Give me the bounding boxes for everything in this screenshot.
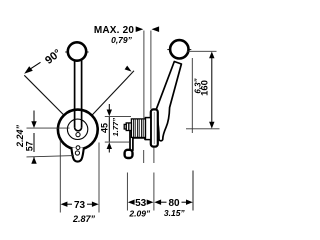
- 90 deg arrowhead right: [125, 66, 132, 72]
- svg-text:160: 160: [199, 80, 210, 96]
- cable stud: [124, 123, 131, 131]
- 90 deg arrowhead left: [24, 62, 40, 74]
- dim 45 arrow bottom: [107, 142, 112, 149]
- clamp plate: [145, 118, 150, 140]
- svg-text:2.87”: 2.87”: [72, 214, 96, 224]
- dim 45 extension bottom: [105, 141, 130, 143]
- ext line arm foot: [126, 173, 128, 211]
- dim 160 line: [211, 58, 213, 123]
- tab hole upper: [76, 146, 80, 150]
- ext line ball/lever right (lower segment): [192, 171, 194, 211]
- dim 73 extension right: [98, 143, 100, 213]
- output arm: [130, 131, 145, 151]
- base inner circle: [67, 119, 87, 139]
- dim 73 extension left: [59, 141, 61, 213]
- dim 45 arrow top: [107, 110, 112, 117]
- dim 57 arrow bottom: [31, 157, 36, 164]
- lever shaft (front view): [75, 60, 82, 131]
- dim 160 extension bottom: [186, 128, 220, 130]
- base small hole: [76, 133, 80, 137]
- lever shaft (side view, tilted): [156, 62, 182, 141]
- svg-text:57: 57: [24, 141, 34, 151]
- dim 57 arrow top: [31, 121, 36, 128]
- ext line ball/lever right (upper segment): [191, 58, 193, 133]
- mounting flange (side): [151, 109, 158, 146]
- dim 160 arrow bottom: [209, 122, 214, 129]
- svg-text:2.09”: 2.09”: [128, 208, 151, 218]
- dim 53 arrows: [128, 200, 135, 205]
- swing line left (45 deg lever position): [24, 75, 64, 115]
- ext line stub clamp face: [143, 150, 145, 163]
- tab hole lower: [75, 151, 79, 155]
- ext line panel face (lower segment): [153, 173, 155, 211]
- dim 160 extension top: [187, 50, 217, 52]
- lever ball (side view): [170, 40, 188, 58]
- bottom tab: [71, 148, 83, 162]
- svg-text:53: 53: [135, 198, 147, 209]
- dim MAX.20 ext line left: [143, 31, 145, 119]
- dim MAX.20 ext line right: [150, 31, 152, 109]
- clamp nut stack: [131, 119, 145, 137]
- base outer circle: [58, 110, 98, 150]
- svg-text:1.77”: 1.77”: [111, 118, 120, 137]
- svg-text:MAX. 20: MAX. 20: [94, 25, 135, 36]
- flange inner line: [153, 112, 155, 144]
- ball ticks (side view): [167, 49, 191, 51]
- ext line panel face (upper stub): [153, 148, 155, 164]
- dim 45 extension top: [105, 115, 131, 117]
- svg-text:45: 45: [100, 123, 110, 133]
- dim 57 line: [33, 111, 35, 164]
- dim 160 arrow top: [209, 52, 214, 59]
- dim 73 line and arrows: [61, 202, 99, 207]
- lever ball (front view): [68, 42, 86, 60]
- dim 57 extension bottom: [27, 156, 75, 157]
- swing line right (45 deg lever position): [92, 71, 134, 115]
- dim 80 arrows and line: [154, 200, 193, 205]
- MAX.20 arrow right-pointing: [136, 26, 144, 32]
- dim 45 line: [108, 104, 110, 153]
- svg-text:73: 73: [74, 200, 86, 211]
- svg-text:2.24”: 2.24”: [15, 124, 25, 148]
- ball centre ticks: [65, 51, 88, 53]
- dim 57 extension top: [27, 127, 70, 129]
- svg-text:3.15”: 3.15”: [164, 208, 186, 218]
- svg-text:0,79”: 0,79”: [111, 35, 133, 45]
- MAX.20 arrow left-pointing: [152, 26, 160, 32]
- stack grooves: [134, 119, 144, 137]
